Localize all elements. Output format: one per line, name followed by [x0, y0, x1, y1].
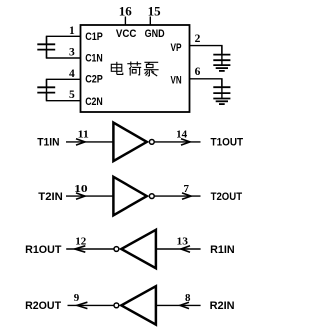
svg-text:VCC: VCC	[116, 28, 137, 40]
arrow T2 output	[182, 193, 191, 199]
arrow into T2 buffer	[76, 193, 85, 199]
arrow R1 output	[75, 246, 86, 252]
wire T1 output	[154, 141, 200, 143]
arrow into T1 buffer	[76, 139, 85, 145]
svg-text:C1N: C1N	[85, 53, 103, 65]
wire R2 output	[68, 304, 114, 306]
inverter/receiver R2 (with output bubble)	[121, 286, 156, 324]
svg-text:VN: VN	[171, 75, 182, 87]
ground	[213, 65, 230, 71]
capacitor C2	[37, 87, 55, 92]
wire pin5 C2N	[47, 93, 81, 101]
wire T1 input	[66, 141, 113, 143]
wire VCC stub pin 16	[124, 17, 126, 26]
text 荷 (charge-pump label char 2)	[127, 62, 141, 76]
capacitor C1	[37, 44, 55, 49]
svg-text:7: 7	[184, 183, 190, 195]
wire R1 input	[156, 248, 201, 250]
wire capacitor C2 vertical	[46, 79, 48, 100]
inverter/driver T1 (with output bubble)	[113, 123, 146, 162]
wire T2 output	[154, 195, 200, 197]
arrow R2 output	[77, 302, 87, 308]
wire capacitor C1 vertical	[46, 36, 48, 58]
svg-text:C2N: C2N	[85, 96, 103, 108]
wire pin2 VP	[190, 46, 222, 55]
wire pin3 C1N	[47, 50, 81, 58]
wire pin4 C2P	[47, 79, 81, 87]
svg-text:T2OUT: T2OUT	[211, 191, 243, 203]
svg-text:C2P: C2P	[85, 73, 103, 85]
capacitor C3 (VP reservoir)	[213, 46, 230, 66]
inverter/driver T2 (with output bubble)	[113, 177, 146, 216]
svg-text:T1OUT: T1OUT	[211, 137, 244, 149]
svg-text:3: 3	[69, 47, 75, 59]
svg-text:9: 9	[74, 292, 80, 304]
svg-text:4: 4	[69, 68, 75, 80]
wire R2 input	[156, 304, 201, 306]
svg-text:8: 8	[185, 292, 191, 304]
svg-text:VP: VP	[171, 42, 182, 54]
svg-text:11: 11	[78, 128, 89, 140]
wire T2 input	[66, 195, 113, 197]
svg-text:5: 5	[69, 89, 75, 101]
text 电 (charge-pump label char 1)	[111, 62, 123, 75]
svg-text:R1OUT: R1OUT	[25, 244, 62, 256]
ground	[213, 99, 230, 105]
wire GND stub pin 15	[149, 17, 151, 26]
svg-text:R2OUT: R2OUT	[25, 300, 61, 312]
arrow R2 input	[180, 302, 189, 308]
svg-text:13: 13	[177, 236, 189, 248]
svg-text:1: 1	[69, 25, 75, 37]
svg-text:R2IN: R2IN	[210, 300, 235, 312]
svg-text:16: 16	[119, 3, 133, 18]
svg-text:T1IN: T1IN	[37, 137, 59, 149]
IC U1 charge pump (电荷泵) body	[81, 25, 190, 112]
svg-text:GND: GND	[145, 28, 165, 40]
svg-text:10: 10	[74, 183, 88, 195]
svg-text:15: 15	[148, 3, 162, 18]
svg-text:C1P: C1P	[85, 31, 103, 43]
text 泵 (charge-pump label char 3)	[144, 62, 159, 76]
wire pin6 VN	[190, 79, 222, 87]
wire R1 output	[66, 248, 113, 250]
svg-text:6: 6	[195, 66, 201, 78]
arrow T1 output	[181, 139, 190, 145]
capacitor C4 (VN reservoir)	[213, 79, 230, 99]
wire pin1 C1P	[47, 36, 81, 44]
svg-text:T2IN: T2IN	[38, 191, 63, 203]
svg-text:R1IN: R1IN	[210, 244, 235, 256]
inverter/receiver R1 (with output bubble)	[121, 230, 156, 268]
svg-text:14: 14	[176, 128, 188, 140]
arrow R1 input	[181, 246, 190, 252]
svg-text:12: 12	[75, 236, 87, 248]
svg-text:2: 2	[195, 33, 201, 45]
